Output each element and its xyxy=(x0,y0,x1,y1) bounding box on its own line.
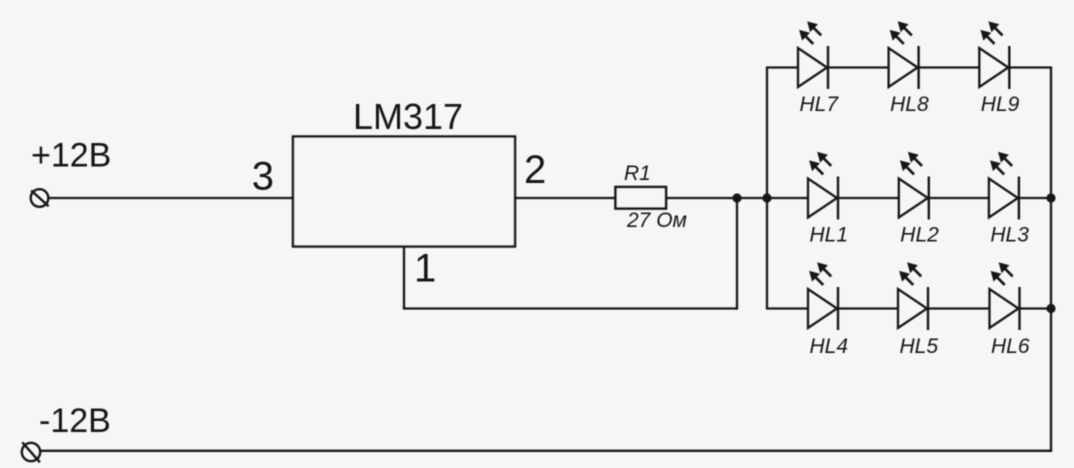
svg-text:LM317: LM317 xyxy=(353,96,463,137)
svg-text:2: 2 xyxy=(524,148,546,192)
LED HL1 xyxy=(808,153,838,220)
LED HL3 xyxy=(989,153,1019,220)
junction node D (right bus / bottom row) xyxy=(1046,304,1055,313)
wire bottom row: bus to HL4 xyxy=(766,307,808,309)
wire middle row: node B to HL1 xyxy=(767,197,808,199)
wire HL6 to right bus xyxy=(1020,307,1052,309)
wire HL3 to right bus xyxy=(1019,197,1051,199)
svg-text:HL2: HL2 xyxy=(900,224,939,247)
junction node B (left bus / middle row) xyxy=(762,193,771,202)
wire HL9 to right bus xyxy=(1009,66,1052,68)
svg-text:HL5: HL5 xyxy=(900,335,939,358)
LED HL6 xyxy=(990,263,1020,330)
wire bottom return -12V xyxy=(41,450,1053,452)
wire right bus vertical xyxy=(1050,68,1052,451)
svg-text:HL6: HL6 xyxy=(991,335,1030,358)
svg-text:-12В: -12В xyxy=(39,402,111,440)
svg-text:3: 3 xyxy=(252,155,274,199)
LED HL7 xyxy=(798,22,828,89)
svg-text:27 Ом: 27 Ом xyxy=(626,209,687,232)
wire from +12V terminal to LM317 pin 3 xyxy=(48,197,293,199)
wire resistor R1 to node A xyxy=(666,197,767,199)
svg-text:HL7: HL7 xyxy=(800,93,840,116)
regulator U1 LM317 body xyxy=(293,137,515,247)
wire HL2 to HL3 xyxy=(929,197,989,199)
svg-text:HL8: HL8 xyxy=(890,93,929,116)
LED HL4 xyxy=(808,263,838,330)
svg-text:+12В: +12В xyxy=(31,137,111,175)
wire feedback vertical up to node A xyxy=(736,198,738,310)
wire HL1 to HL2 xyxy=(838,197,899,199)
wire left bus vertical xyxy=(766,68,768,309)
LED HL5 xyxy=(898,263,928,330)
wire HL5 to HL6 xyxy=(928,307,990,309)
terminal +12V input xyxy=(31,189,49,207)
LED HL9 xyxy=(979,22,1009,89)
wire top row: bus to HL7 xyxy=(766,66,798,68)
wire HL7 to HL8 xyxy=(828,66,889,68)
svg-text:R1: R1 xyxy=(624,162,651,185)
svg-text:HL9: HL9 xyxy=(981,93,1020,116)
wire feedback horizontal pin1 to node A xyxy=(403,307,737,309)
terminal -12V xyxy=(22,442,40,462)
junction node C (right bus / middle row) xyxy=(1046,193,1055,202)
LED HL8 xyxy=(889,22,919,89)
svg-text:HL1: HL1 xyxy=(810,224,849,247)
svg-text:HL3: HL3 xyxy=(990,224,1029,247)
wire LM317 pin 1 down xyxy=(403,247,405,309)
resistor R1 xyxy=(616,187,667,209)
wire HL4 to HL5 xyxy=(838,307,898,309)
junction node A xyxy=(732,193,741,202)
LED HL2 xyxy=(899,153,929,220)
svg-text:1: 1 xyxy=(414,247,436,291)
wire LM317 pin 2 to resistor R1 xyxy=(515,197,616,199)
svg-text:HL4: HL4 xyxy=(810,335,849,358)
wire HL8 to HL9 xyxy=(919,66,980,68)
